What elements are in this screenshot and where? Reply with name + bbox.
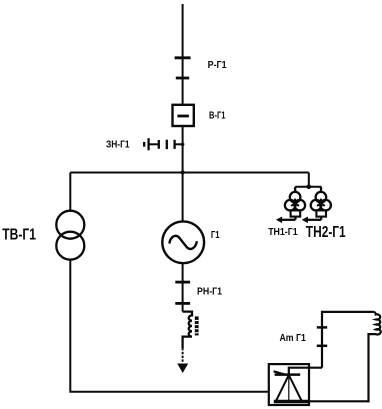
- generator Г1: [162, 221, 204, 263]
- svg-text:ЗН-Г1: ЗН-Г1: [106, 138, 130, 150]
- thyristor cathode bar: [275, 373, 301, 376]
- svg-text:РН-Г1: РН-Г1: [197, 285, 222, 297]
- reactor core bar: [195, 316, 199, 335]
- neutral grounding reactor coil: [183, 312, 192, 348]
- disconnector Р-Г1 blade 2: [176, 77, 189, 80]
- ТН header bar: [295, 186, 321, 188]
- svg-text:ТН2-Г1: ТН2-Г1: [306, 224, 346, 241]
- wire generator to reactor: [182, 263, 184, 311]
- wire breaker to generator: [182, 126, 184, 222]
- thyristor anode base: [274, 400, 309, 404]
- circuit breaker В-Г1: [173, 105, 194, 126]
- wire ТВ-Г1 to converter: [70, 260, 268, 392]
- wire bus to voltage transformers: [308, 173, 310, 187]
- svg-text:ТН1-Г1: ТН1-Г1: [268, 227, 298, 238]
- converter box АП Г1: [269, 364, 309, 405]
- disconnector РН-Г1 blade 1: [175, 281, 190, 284]
- ground arrow: [177, 364, 188, 374]
- disconnector АП blade 1: [317, 326, 327, 329]
- wire disconnector to converter: [289, 368, 322, 375]
- disconnector Р-Г1 blade 1: [175, 56, 191, 59]
- svg-text:Р-Г1: Р-Г1: [208, 59, 227, 71]
- wire bus to ТВ-Г1: [69, 173, 71, 212]
- svg-text:В-Г1: В-Г1: [209, 110, 226, 122]
- wire excitation top: [322, 312, 373, 368]
- svg-text:ТВ-Г1: ТВ-Г1: [2, 227, 36, 244]
- node ТН junction: [307, 185, 312, 190]
- rotor field coil: [309, 312, 381, 401]
- voltage transformer ТН1-Г1: [276, 187, 305, 223]
- node bus crossing: [181, 171, 185, 175]
- wire main feeder (top to breaker): [182, 4, 184, 105]
- transformer ТВ-Г1: [56, 211, 84, 239]
- voltage transformer ТН2-Г1: [302, 187, 331, 223]
- thyristor center line: [288, 375, 290, 402]
- disconnector АП blade 2: [317, 345, 327, 348]
- thyristor triangle: [276, 375, 302, 402]
- svg-text:Г1: Г1: [211, 229, 220, 241]
- wire reactor to ground (faded): [182, 348, 184, 363]
- svg-text:Аm Г1: Аm Г1: [280, 333, 307, 344]
- thyristor gate: [274, 371, 285, 374]
- node junction main line / ЗН-Г1: [181, 143, 185, 147]
- disconnector РН-Г1 blade 2: [175, 302, 190, 305]
- wire generator bus: [70, 172, 308, 174]
- grounding switch ЗН-Г1: [144, 138, 183, 150]
